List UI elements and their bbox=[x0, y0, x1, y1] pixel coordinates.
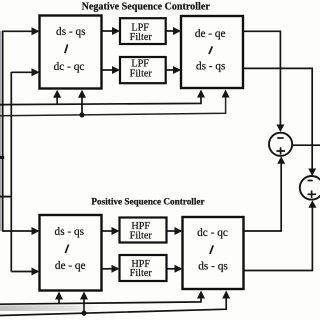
arrow mid line1 into B2 bottom bbox=[197, 90, 205, 98]
block LPF1 bbox=[120, 18, 166, 44]
svg-text:Filter: Filter bbox=[130, 268, 153, 279]
summing junction S2 bbox=[300, 176, 320, 200]
wire B2 output1 to S1 top bbox=[243, 31, 284, 132]
block HPF1 bbox=[120, 218, 167, 243]
block B1 ds-qs/dc-qc transform bbox=[40, 16, 102, 89]
wire B4 output1 to S1 bottom bbox=[244, 156, 286, 231]
block LPF2 bbox=[120, 57, 166, 83]
wire input to B3 ds-qs row bbox=[2, 227, 40, 235]
svg-text:ds - qs: ds - qs bbox=[56, 26, 86, 38]
wire branch mid line1 up to B1 bottom bbox=[53, 90, 61, 105]
junction dot bottom line2 branch bbox=[81, 311, 86, 316]
arrow bottom line2 into B4 bottom bbox=[222, 291, 230, 299]
svg-text:de - qe: de - qe bbox=[195, 28, 226, 40]
block B4 dc-qc/ds-qs transform bbox=[183, 217, 244, 289]
block HPF2 bbox=[120, 255, 167, 281]
wire LPF2 to B2 bbox=[166, 66, 181, 74]
wire LPF1 to B2 bbox=[166, 27, 181, 35]
scan halo along left edge bbox=[0, 31, 2, 231]
junction dot mid line2 branch bbox=[79, 112, 84, 117]
wire stub from left edge into outer rail bbox=[0, 156, 4, 159]
wire B1 to LPF1 bbox=[102, 27, 121, 35]
wire mid feedback line 1 bbox=[0, 95, 201, 105]
wire left inner rail bbox=[10, 72, 12, 272]
wire B2 output2 to S2 top bbox=[243, 68, 316, 176]
svg-text:dc - qc: dc - qc bbox=[54, 61, 85, 73]
svg-text:Filter: Filter bbox=[130, 32, 153, 43]
svg-text:Filter: Filter bbox=[130, 68, 153, 79]
wire B4 output2 to S2 bottom bbox=[244, 200, 317, 270]
svg-text:ds - qs: ds - qs bbox=[55, 226, 85, 238]
svg-text:de - qe: de - qe bbox=[55, 260, 86, 272]
svg-text:dc - qc: dc - qc bbox=[197, 227, 228, 239]
wire bottom feedback line 2 bbox=[0, 296, 226, 316]
wire input to B1 ds-qs row bbox=[2, 27, 40, 35]
wire input to B1 dc-qc row bbox=[11, 68, 39, 76]
block B2 de-qe/ds-qs transform bbox=[181, 16, 243, 88]
svg-text:Filter: Filter bbox=[130, 230, 153, 241]
wire input to B3 de-qe row bbox=[11, 268, 39, 276]
wire stub from left edge into inner rail bbox=[0, 196, 12, 198]
svg-text:Positive Sequence Controller: Positive Sequence Controller bbox=[91, 197, 204, 207]
wire B3 to HPF2 bbox=[102, 265, 120, 273]
wire mid feedback line 2 bbox=[0, 95, 226, 116]
wire bottom feedback line 1 bbox=[0, 296, 201, 304]
wire HPF2 to B4 bbox=[167, 265, 183, 273]
arrow bottom line1 into B4 bottom bbox=[197, 291, 205, 299]
wire branch mid line2 up to B1 bottom bbox=[78, 90, 86, 115]
wire B1 to LPF2 bbox=[102, 66, 121, 74]
summing junction S1 bbox=[269, 133, 292, 156]
wire branch bottom line2 up to B3 bottom bbox=[80, 292, 88, 314]
arrow mid line2 into B2 bottom bbox=[222, 90, 230, 98]
wire HPF1 to B4 bbox=[167, 227, 183, 235]
wire B3 to HPF1 bbox=[102, 227, 120, 235]
wire S1 output right bbox=[292, 144, 320, 146]
wire branch bottom line1 up to B3 bottom bbox=[55, 292, 63, 304]
wire left outer rail bbox=[2, 31, 4, 232]
block B3 ds-qs/de-qe transform bbox=[40, 215, 102, 291]
svg-text:Negative Sequence Controller: Negative Sequence Controller bbox=[82, 2, 211, 13]
svg-text:ds - qs: ds - qs bbox=[196, 61, 226, 73]
svg-text:ds - qs: ds - qs bbox=[198, 261, 228, 273]
